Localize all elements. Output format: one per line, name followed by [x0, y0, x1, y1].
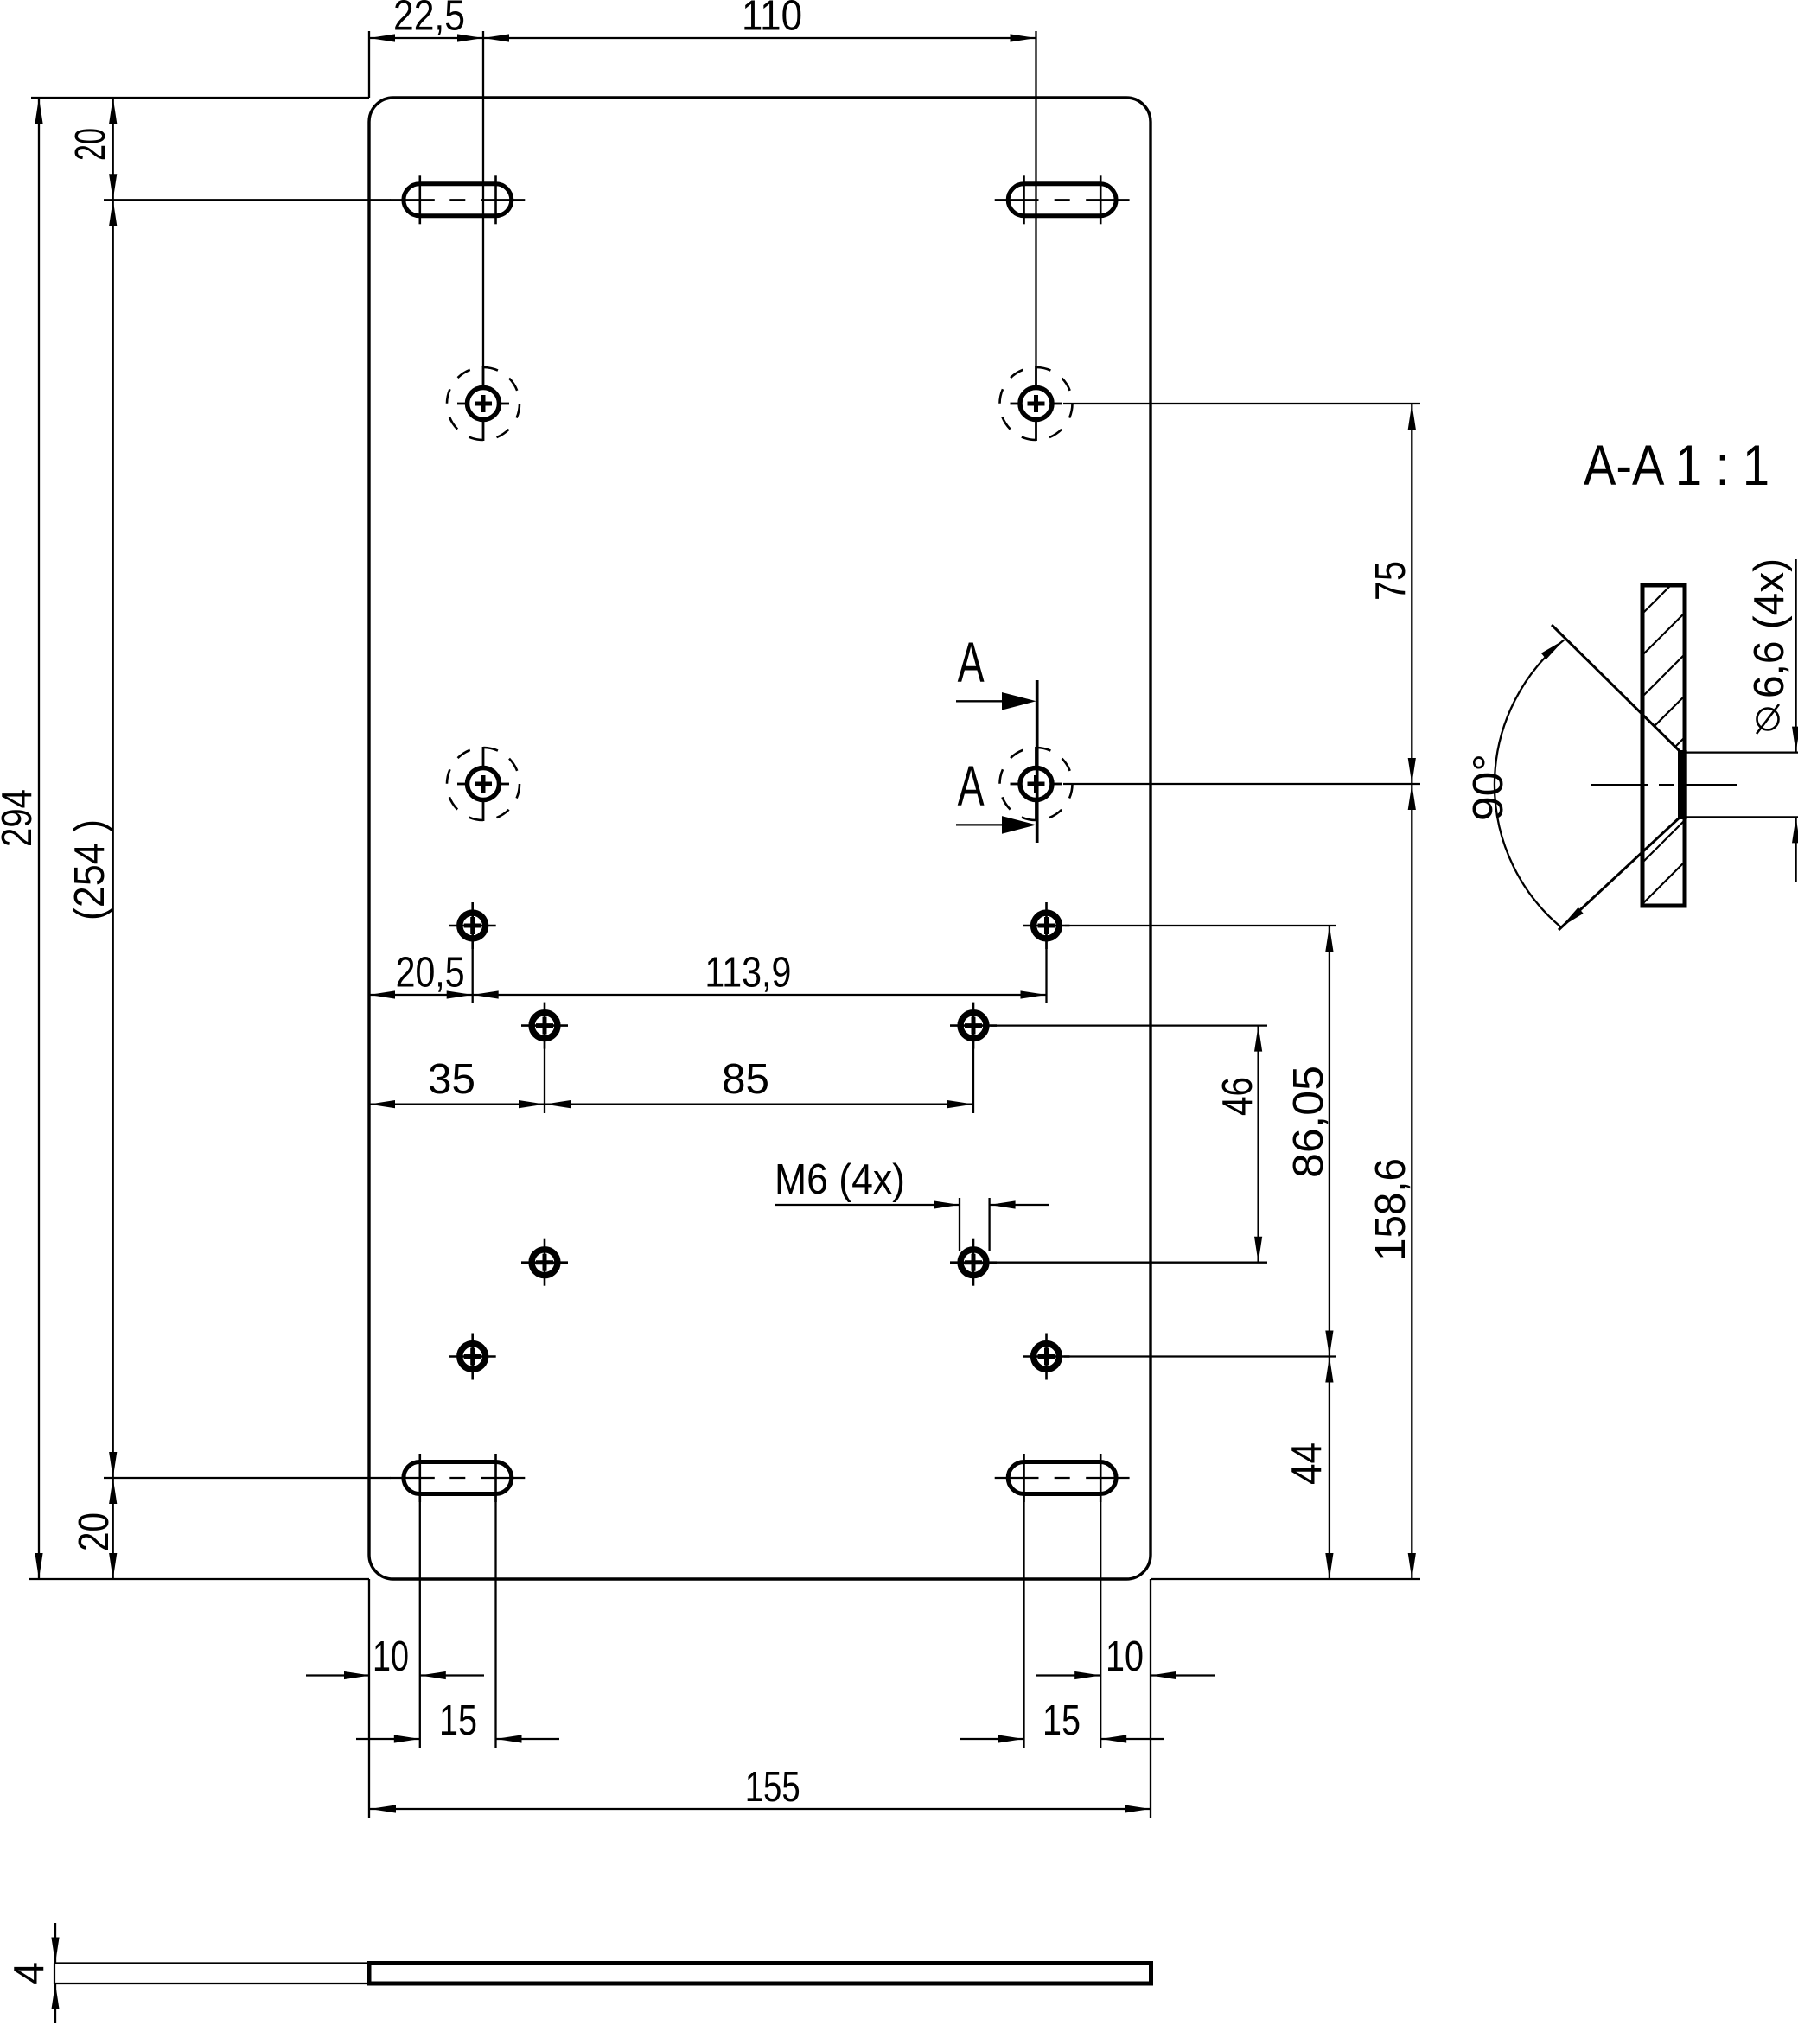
- dimension 22,5: [369, 0, 483, 42]
- svg-text:113,9: 113,9: [705, 950, 791, 997]
- bore Ø6,6 (section): [1678, 750, 1687, 819]
- hole G1 (M6): [449, 1334, 496, 1380]
- dimension 4 (thickness): [6, 1923, 60, 2023]
- dimension 20 bottom: [71, 1478, 118, 1579]
- label 90°: [1465, 754, 1512, 821]
- dimension (254): [67, 200, 117, 1478]
- extension line hole B2 right: [1063, 403, 1420, 404]
- extension line hole F2 right: [991, 1262, 1267, 1264]
- section view title A-A 1 : 1: [1584, 433, 1769, 497]
- svg-text:90°: 90°: [1465, 754, 1512, 821]
- slot bottom-right: [995, 1454, 1130, 1502]
- extension line M6 right: [988, 1198, 990, 1251]
- svg-text:155: 155: [745, 1764, 800, 1811]
- extension line bottom-right slot cross 1 down: [1023, 1496, 1024, 1748]
- extension line top slot row left: [104, 199, 391, 201]
- extension line bore top: [1686, 751, 1798, 753]
- extension line hole B1 column up: [482, 31, 484, 367]
- svg-text:110: 110: [742, 0, 802, 40]
- svg-text:86,05: 86,05: [1285, 1066, 1332, 1178]
- dimension 113,9: [473, 950, 1047, 999]
- svg-text:294: 294: [0, 789, 41, 847]
- section centerline: [1591, 784, 1737, 786]
- extension line hole E2 down: [972, 1026, 974, 1113]
- countersunk hole C2 (Ø6,6): [1000, 747, 1073, 821]
- section arrow A lower: [956, 754, 1036, 834]
- plate outline (main view): [369, 98, 1151, 1579]
- hole F2 (M6): [950, 1239, 997, 1286]
- svg-text:A: A: [958, 754, 985, 818]
- dimension 294: [0, 98, 43, 1579]
- dimension 46: [1215, 1026, 1262, 1263]
- hole F1 (M6): [521, 1239, 568, 1286]
- dimension 15 left: [356, 1697, 559, 1744]
- slot top-right: [995, 175, 1130, 224]
- extension line plate bottom right: [1151, 1578, 1420, 1580]
- extension line bottom-right slot cross 2 down: [1100, 1496, 1101, 1748]
- dimension 10 right: [1036, 1633, 1215, 1680]
- countersunk hole B1 (Ø6,6): [447, 366, 520, 441]
- extension line hole C2 right: [1063, 783, 1420, 785]
- svg-text:A-A 1 : 1: A-A 1 : 1: [1584, 433, 1769, 497]
- angle arc 90°: [1495, 640, 1584, 927]
- dimension 155: [370, 1764, 1151, 1813]
- side view thin part: [54, 1964, 369, 1984]
- svg-text:10: 10: [373, 1633, 409, 1680]
- section cut line A-A: [1036, 680, 1039, 843]
- dimension 86,05: [1285, 926, 1334, 1357]
- svg-text:10: 10: [1106, 1633, 1144, 1680]
- extension line bottom-left slot cross 1 down: [419, 1496, 421, 1748]
- hole D1 (M6): [449, 902, 496, 949]
- countersink cone lower edge / angle leg: [1559, 817, 1680, 930]
- svg-text:35: 35: [428, 1056, 475, 1103]
- dimension 110: [483, 0, 1036, 42]
- countersunk hole C1 (Ø6,6): [447, 747, 520, 821]
- extension line plate top extended left: [31, 97, 369, 99]
- svg-text:20,5: 20,5: [396, 950, 465, 997]
- slot bottom-left: [390, 1454, 525, 1502]
- dimension 15 right: [960, 1697, 1164, 1744]
- extension line hole E1 down: [544, 1026, 545, 1113]
- svg-text:22,5: 22,5: [393, 0, 465, 40]
- dimension 10 left: [306, 1633, 484, 1680]
- extension line plate left edge down: [368, 1579, 370, 1818]
- hole E1 (M6): [521, 1003, 568, 1049]
- svg-text:44: 44: [1284, 1442, 1330, 1485]
- svg-text:75: 75: [1368, 561, 1414, 601]
- countersink cone upper edge / angle leg: [1552, 625, 1680, 752]
- slot top-left: [390, 175, 525, 224]
- hole E2 (M6): [950, 1003, 997, 1049]
- dimension Ø6,6 (4x): [1746, 558, 1798, 882]
- hole D2 (M6): [1023, 902, 1070, 949]
- extension line bottom-left slot cross 2 down: [494, 1496, 496, 1748]
- section arrow A upper: [956, 630, 1036, 710]
- dimension M6 (4x): [775, 1156, 1049, 1209]
- extension line hole D2 down: [1045, 926, 1047, 1003]
- countersunk hole B2 (Ø6,6): [1000, 366, 1073, 441]
- dimension 158,6: [1368, 784, 1416, 1579]
- extension line plate bottom extended left: [29, 1578, 369, 1580]
- hole G2 (M6): [1023, 1334, 1070, 1380]
- svg-text:46: 46: [1215, 1077, 1261, 1116]
- svg-text:15: 15: [1042, 1697, 1081, 1744]
- svg-text:A: A: [958, 630, 985, 694]
- extension line plate right edge down: [1150, 1579, 1151, 1818]
- section plate (hatched): [1642, 585, 1685, 906]
- extension line plate left edge up: [368, 31, 370, 98]
- svg-text:(254 ): (254 ): [67, 819, 113, 920]
- extension line hole G2 right: [1064, 1355, 1336, 1357]
- dimension 20 top: [67, 98, 117, 200]
- svg-text:15: 15: [439, 1697, 477, 1744]
- svg-text:158,6: 158,6: [1368, 1158, 1414, 1261]
- dimension 75: [1368, 404, 1416, 784]
- extension line hole B2 column up: [1035, 31, 1036, 367]
- extension line hole E2 right: [991, 1024, 1267, 1026]
- extension line bottom slot row left: [104, 1477, 391, 1479]
- side view plate (thick): [369, 1964, 1151, 1984]
- extension line hole D2 right: [1065, 925, 1336, 926]
- dimension 20,5: [369, 950, 473, 999]
- dimension 44: [1284, 1357, 1334, 1580]
- extension line hole D1 down: [472, 926, 474, 1003]
- dimension 35: [369, 1056, 545, 1108]
- svg-text:20: 20: [71, 1512, 118, 1551]
- svg-text:85: 85: [722, 1056, 769, 1103]
- svg-text:M6 (4x): M6 (4x): [775, 1156, 905, 1203]
- svg-text:20: 20: [67, 128, 114, 161]
- extension line bore bottom: [1686, 816, 1798, 818]
- svg-text:4: 4: [6, 1962, 53, 1984]
- extension line M6 left: [959, 1198, 960, 1251]
- dimension 85: [545, 1056, 973, 1108]
- svg-text:6,6 (4x): 6,6 (4x): [1746, 558, 1793, 698]
